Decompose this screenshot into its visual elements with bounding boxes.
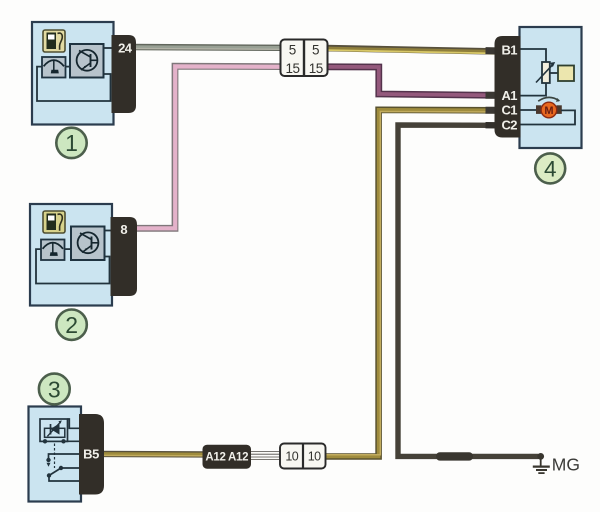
wire B1 to rheostat: [520, 49, 547, 62]
fuel pump icon: [43, 30, 65, 52]
connector block comp3 pin B5: [79, 414, 104, 495]
fuel gauge icon: [41, 240, 65, 261]
wire gray pin24 to connector 5: [130, 47, 282, 49]
svg-text:5: 5: [289, 43, 297, 58]
rheostat R fuel level sender: [542, 62, 550, 83]
svg-text:4: 4: [544, 157, 557, 182]
svg-text:C1: C1: [502, 102, 518, 117]
wire black C2 to ground: [398, 125, 539, 456]
twin white wires A12 to 10: [251, 453, 281, 458]
svg-text:MG: MG: [552, 454, 580, 474]
wire gauge to transistor: [65, 248, 72, 250]
fuel gauge icon: [42, 57, 66, 78]
ground MG: [533, 453, 580, 474]
svg-text:15: 15: [309, 61, 323, 76]
wire transistor emitter loop to gauge: [37, 67, 111, 101]
component 4 fuel pump module box: [520, 27, 582, 148]
wire motor to C2: [520, 110, 576, 124]
pin wire from right dot: [64, 440, 81, 442]
transistor U stabilizer: [70, 44, 104, 78]
inner rect: [45, 428, 65, 437]
inline connector A12 pair: [203, 445, 252, 469]
diode box: [40, 419, 68, 441]
inline connector 5/15 pair: [281, 40, 328, 77]
callout circle 1: [56, 128, 86, 158]
splice on ground wire: [436, 452, 473, 460]
callout circle 3: [39, 374, 70, 405]
svg-text:C2: C2: [502, 118, 518, 133]
svg-text:A1: A1: [502, 88, 518, 103]
component 2 instrument cluster box: [30, 204, 112, 306]
svg-text:A12 A12: A12 A12: [205, 452, 248, 464]
wire yellow C1 to connector 10: [322, 110, 500, 457]
wire rheostat to A1: [520, 83, 547, 96]
float box: [558, 66, 574, 82]
pin wire upper: [68, 419, 81, 428]
wire olive connector 5 to B1: [326, 48, 500, 53]
callout circle 4: [535, 153, 565, 183]
B5 pin wire to wiper terminal: [49, 454, 81, 459]
wire pink pin8 to connector 15: [131, 66, 282, 228]
svg-text:2: 2: [65, 312, 78, 338]
svg-text:10: 10: [308, 450, 321, 464]
fuel pump icon: [43, 211, 65, 233]
wire transistor to pin 8: [105, 230, 112, 232]
svg-text:8: 8: [120, 222, 127, 237]
svg-text:15: 15: [285, 61, 299, 76]
svg-text:10: 10: [285, 450, 298, 464]
connector block comp1 pin 24: [112, 35, 137, 113]
wire purple connector 15 to A1: [326, 67, 500, 96]
transistor U stabilizer: [71, 227, 105, 261]
component 3 relay/module box: [29, 407, 82, 502]
svg-text:B1: B1: [502, 42, 518, 57]
wire gauge to transistor: [66, 66, 71, 68]
svg-text:3: 3: [48, 376, 61, 402]
wire C1 to motor: [520, 109, 537, 111]
switch contact: [59, 466, 63, 470]
diode D: [51, 423, 60, 434]
wire transistor to pin 24: [104, 47, 113, 49]
svg-text:B5: B5: [83, 446, 99, 461]
connector block comp2 pin 8: [111, 217, 138, 296]
inline connector 10/10 pair: [280, 444, 326, 469]
component 1 instrument cluster box: [32, 22, 114, 125]
svg-text:1: 1: [65, 130, 78, 156]
wire transistor emitter loop to gauge: [36, 249, 110, 283]
svg-text:5: 5: [312, 43, 320, 58]
callout circle 2: [56, 310, 86, 340]
wire olive B5 to connector A12: [100, 454, 206, 456]
mechanical link dashed: [54, 444, 56, 469]
svg-text:M: M: [544, 105, 553, 117]
wire end sleeves at comp4: [486, 51, 499, 126]
svg-text:24: 24: [118, 41, 133, 56]
connector block comp4 pins B1 A1 C1 C2: [495, 36, 521, 138]
wiper wire to float box: [551, 72, 559, 74]
motor M fuel pump: [536, 97, 562, 117]
terminal dots: [43, 439, 47, 443]
